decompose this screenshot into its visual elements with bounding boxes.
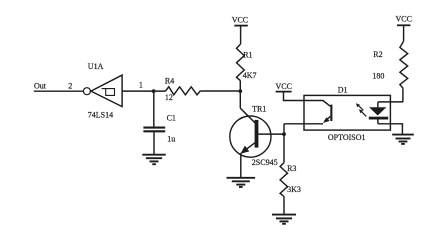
wire node C up [283,124,285,134]
svg-text:1u: 1u [167,134,175,143]
svg-text:D1: D1 [338,85,348,94]
opto-isolator D1 box [304,95,390,130]
inverter U1A output bubble [83,88,90,95]
capacitor C1 top plate [143,127,165,129]
power VCC3 bar [397,24,410,26]
opto D1 light arrow 1 [358,105,363,110]
transistor TR1 emitter diagonal [242,143,255,153]
svg-text:VCC: VCC [396,15,412,24]
ground below TR1 [227,178,256,187]
opto D1 LED cathode bar [369,117,388,120]
svg-text:OPTOISO1: OPTOISO1 [328,133,366,142]
transistor TR1 collector diagonal [240,108,256,123]
transistor TR1 emitter arrowhead [241,146,250,154]
wire R3 to ground [283,197,285,214]
inverter U1A triangle [91,75,122,107]
svg-text:12: 12 [165,93,173,102]
svg-text:2: 2 [68,82,72,91]
wire Out net [34,90,84,92]
wire TR1 emitter to ground [240,153,242,177]
svg-text:U1A: U1A [88,62,104,71]
wire node C to opto emitter pin [284,123,323,125]
wire R1 to TR1 collector [239,81,241,108]
opto D1 phototransistor bar [330,105,332,121]
node junction R4/R1/collector [238,89,242,93]
node junction base/R3/opto [282,132,286,136]
resistor R3 zigzag [280,163,287,197]
wire R4 to node B [200,90,240,92]
opto D1 light arrow 2 [361,111,366,116]
wire node C down to R3 [283,134,285,163]
svg-text:180: 180 [372,72,384,81]
svg-text:Out: Out [34,82,47,91]
svg-text:R4: R4 [165,76,174,85]
svg-text:VCC: VCC [232,16,248,25]
wire node to C1 [153,91,155,127]
svg-text:C1: C1 [167,113,176,122]
node junction C1/R4 [152,89,156,93]
opto D1 phototransistor emitter arrowhead [323,117,330,123]
power VCC1 bar [234,25,248,27]
wire R2 down [402,88,404,102]
opto D1 LED cathode wire [377,120,379,124]
wire U1A output to node [122,90,166,92]
svg-text:R1: R1 [243,51,252,60]
wire LED cathode to ground [378,124,403,134]
inverter U1A schmitt trigger glyph [102,89,115,96]
ground below R3 [272,215,296,224]
svg-text:R3: R3 [287,164,296,173]
resistor R4 zigzag [166,87,201,95]
transistor TR1 base bar [255,120,259,148]
opto D1 phototransistor emitter [325,116,331,121]
wire C1 to ground [153,132,155,154]
wire LED anode to R2 [378,101,403,103]
svg-text:2SC945: 2SC945 [252,158,278,167]
svg-text:TR1: TR1 [252,104,266,113]
opto D1 LED triangle [369,107,386,115]
svg-text:4K7: 4K7 [243,71,257,80]
resistor R2 zigzag [400,41,408,88]
svg-text:VCC: VCC [276,82,292,91]
wire VCC3 to R2 [403,26,405,42]
opto D1 LED anode wire [377,102,379,107]
ground right of opto [392,135,414,144]
power VCC2 bar [276,91,292,93]
wire TR1 base to node C [258,133,284,135]
svg-text:1: 1 [139,81,143,90]
ground below C1 [142,155,165,165]
resistor R1 zigzag [237,44,245,81]
svg-text:74LS14: 74LS14 [88,111,113,120]
svg-text:R2: R2 [373,50,382,59]
svg-text:3K3: 3K3 [287,185,301,194]
capacitor C1 bottom plate [143,130,165,132]
wire VCC2 to opto collector pin [284,92,331,106]
wire VCC1 to R1 [240,26,242,44]
transistor TR1 circle [230,116,271,157]
